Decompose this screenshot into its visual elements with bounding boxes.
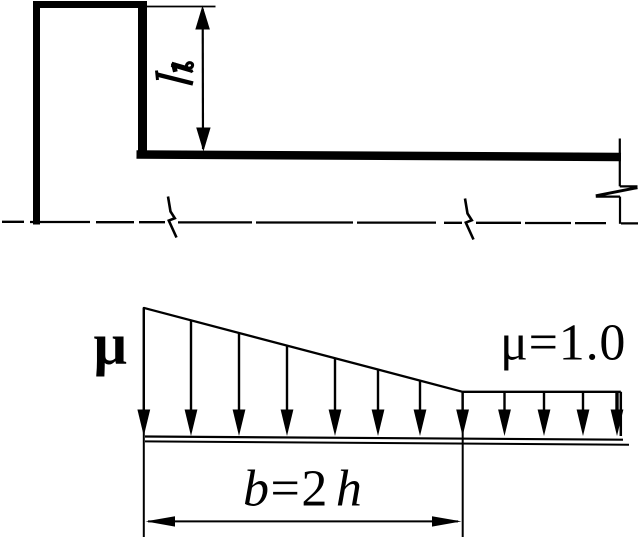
load arrow 3 (238, 333, 240, 423)
load arrow 4 (286, 346, 288, 423)
right wall Z-break diagonal (596, 188, 638, 196)
right wall Z-break bottom horizontal (596, 196, 620, 198)
label h (rotated italic, drawn) (157, 63, 194, 84)
load arrow 5 (334, 359, 336, 424)
dimension b left arrowhead (146, 516, 175, 526)
h dimension bottom arrowhead (196, 128, 210, 152)
svg-text:μ=1.0: μ=1.0 (500, 315, 626, 372)
load arrow 1 (143, 308, 145, 423)
load arrow 9 (503, 392, 505, 423)
svg-text:μ: μ (94, 311, 127, 377)
load arrow 12 (615, 392, 618, 423)
h dimension extension line (147, 6, 216, 8)
step wall thick line (138, 2, 147, 156)
load diagram flat top line (463, 391, 621, 393)
load arrow 10 (543, 392, 545, 423)
right wall cut line lower segment (619, 197, 621, 224)
load diagram left edge + extension line (143, 307, 145, 537)
load arrow 11 (582, 392, 584, 423)
transition extension line (462, 392, 464, 537)
load diagram right edge (620, 392, 623, 436)
dimension b right arrowhead (432, 516, 462, 526)
right wall Z-break top horizontal (620, 185, 638, 187)
load arrow 7 (419, 381, 421, 423)
ground line (dashed) (2, 222, 638, 224)
load diagram sloped top line (144, 308, 463, 392)
ground break mark 1 (168, 197, 177, 238)
upper roof thick line (34, 1, 147, 8)
ground break mark 2 (465, 199, 474, 240)
lower roof thick line (137, 155, 622, 158)
dimension b=2h line (148, 520, 458, 522)
load arrow 6 (377, 370, 379, 423)
roof baseline upper (145, 437, 623, 440)
load arrows (137, 308, 623, 436)
left wall thick line (33, 1, 40, 225)
h dimension line (202, 9, 205, 149)
load arrow 8 (461, 392, 463, 423)
h dimension top arrowhead (195, 6, 210, 30)
right wall cut line upper segment (619, 139, 621, 187)
svg-text:b=2h: b=2h (243, 461, 363, 518)
load arrow 2 (190, 321, 192, 424)
roof baseline lower (145, 441, 629, 444)
